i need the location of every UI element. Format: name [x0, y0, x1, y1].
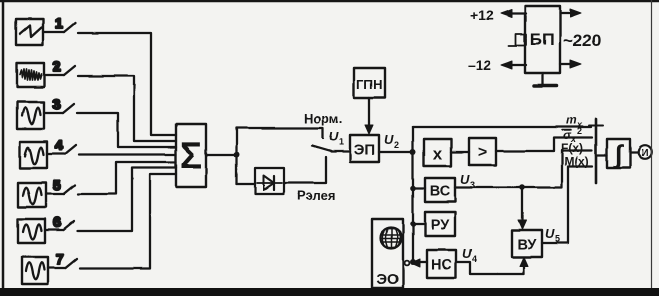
- svg-text:>: >: [478, 144, 487, 161]
- frame border left: [2, 0, 5, 291]
- arrow ~220 input top: [560, 9, 581, 17]
- wire bus to NS: [413, 261, 427, 263]
- wire bus to BC: [413, 187, 425, 189]
- arrow ~220 input bottom: [560, 60, 581, 68]
- wire mx line (top): [413, 126, 591, 128]
- source generator 1 (sawtooth): [16, 19, 43, 45]
- node BC output branch: [519, 185, 525, 191]
- node A (summer output junction): [234, 152, 240, 158]
- label sigma x squared: [562, 126, 582, 144]
- svg-text:~220: ~220: [563, 31, 601, 50]
- wire amplifier to sigma2 selector line: [496, 138, 592, 152]
- integrator block: [607, 139, 630, 169]
- wire rayleigh branch to selector contact: [284, 157, 326, 183]
- frame border right: [651, 0, 653, 291]
- block GPN (ГПН ramp generator): [354, 68, 385, 98]
- wire from S6 to summer input 6: [77, 168, 176, 232]
- svg-text:U: U: [329, 129, 339, 144]
- svg-text:2: 2: [53, 58, 61, 74]
- frame border top: [0, 0, 659, 2]
- svg-text:ЭП: ЭП: [354, 142, 375, 159]
- wire from S3 to summer input 3: [77, 113, 176, 147]
- svg-text:F(х): F(х): [561, 141, 583, 155]
- summer U1 (sigma block): [176, 124, 206, 187]
- svg-text:U: U: [462, 246, 472, 261]
- node RU input: [410, 221, 416, 227]
- label U5: [545, 226, 560, 244]
- wire selector to integrator: [596, 154, 607, 156]
- source generator 3 (sine): [17, 102, 44, 129]
- svg-text:7: 7: [56, 251, 64, 267]
- arrow -12 output: [501, 61, 526, 69]
- svg-text:–12: –12: [468, 57, 492, 73]
- svg-text:И: И: [641, 148, 648, 159]
- node U2 (bus junction): [410, 149, 416, 155]
- svg-text:U: U: [545, 226, 555, 241]
- wire X to amplifier: [451, 151, 469, 153]
- svg-text:ВУ: ВУ: [518, 237, 538, 253]
- svg-text:х: х: [433, 145, 443, 164]
- label U2: [384, 132, 399, 150]
- frame border bottom bar: [0, 288, 659, 296]
- svg-text:ВС: ВС: [430, 184, 451, 200]
- rayleigh detector VD1 (diode box): [255, 168, 284, 194]
- switch S7: [48, 259, 77, 268]
- block BC (ВС): [425, 178, 455, 202]
- wire summer output: [206, 154, 236, 156]
- wire from S5 to summer input 5: [78, 162, 176, 194]
- source generator 5 (sine): [18, 183, 46, 207]
- svg-text:2: 2: [577, 126, 582, 136]
- switch S5: [46, 185, 75, 194]
- svg-text:m: m: [566, 113, 577, 127]
- wire integrator to meter: [630, 151, 638, 153]
- node NS input: [410, 259, 416, 265]
- terminal circle at EO: [405, 261, 410, 266]
- arrow BC branch down to VU: [518, 188, 526, 230]
- wire from S2 to summer input 2: [78, 76, 176, 141]
- svg-text:ГПН: ГПН: [356, 77, 382, 92]
- label mx: [566, 113, 583, 130]
- block VU (ВУ): [512, 230, 542, 257]
- wire from S7 to summer input 7: [80, 174, 176, 269]
- wire from S1 to summer input 1: [78, 33, 176, 135]
- chassis terminal symbol: [509, 34, 526, 46]
- block NS (НС): [427, 250, 456, 278]
- svg-text:Норм.: Норм.: [304, 111, 342, 126]
- svg-text:2: 2: [394, 140, 399, 150]
- svg-text:4: 4: [472, 254, 477, 264]
- svg-text:Рэлея: Рэлея: [297, 188, 335, 203]
- switch S3: [44, 104, 74, 113]
- block X (multiplier): [424, 139, 451, 166]
- svg-text:1: 1: [55, 15, 63, 31]
- svg-text:М(х): М(х): [564, 155, 589, 169]
- svg-text:+12: +12: [470, 7, 494, 23]
- block EO (ЭО oscilloscope): [372, 219, 403, 288]
- source generator 6 (sine): [18, 219, 45, 243]
- svg-text:3: 3: [53, 96, 61, 112]
- svg-text:НС: НС: [431, 258, 452, 274]
- wire split vertical: [235, 128, 237, 184]
- switch S1: [43, 23, 75, 32]
- svg-text:Σ: Σ: [180, 135, 202, 176]
- arrow +12 output: [501, 10, 526, 18]
- block EP (ЭП): [350, 135, 379, 162]
- wire VU output to M(x) line: [542, 167, 592, 244]
- node BC input: [410, 185, 416, 191]
- block amplifier (>): [469, 138, 496, 165]
- wire from S4 to summer input 4: [79, 153, 176, 155]
- arrow bus to EO terminal: [411, 259, 420, 267]
- svg-text:БП: БП: [530, 30, 554, 49]
- wire arm to EP: [331, 150, 350, 152]
- wire NS output to VU bottom: [456, 262, 524, 274]
- selector switch arm U1: [312, 146, 331, 152]
- label U4: [462, 246, 477, 264]
- selector bar (mode switch): [589, 119, 603, 183]
- svg-text:4: 4: [55, 137, 63, 153]
- source generator 4 (sine): [20, 142, 47, 168]
- wire BC output to F(x) line: [455, 151, 592, 188]
- arrow into VU bottom: [520, 257, 528, 274]
- svg-text:6: 6: [53, 214, 61, 230]
- svg-text:U: U: [384, 132, 394, 147]
- arrow GPN to EP: [365, 98, 373, 134]
- power supply BP (БП): [525, 6, 560, 73]
- svg-text:ЭО: ЭО: [376, 271, 399, 288]
- source generator 7 (sine): [22, 257, 48, 284]
- switch S2: [44, 66, 75, 75]
- bus wire vertical: [412, 127, 414, 263]
- svg-text:U: U: [460, 172, 470, 187]
- switch S6: [45, 221, 74, 230]
- meter I (И): [638, 145, 652, 159]
- source generator 2 (noise): [17, 63, 44, 87]
- label U1: [329, 129, 344, 147]
- wire bus to RU: [413, 223, 425, 225]
- block RU (РУ): [425, 212, 455, 236]
- svg-text:5: 5: [53, 177, 61, 193]
- ground symbol: [534, 73, 557, 86]
- wire norm branch: [237, 128, 324, 138]
- svg-text:1: 1: [339, 137, 344, 147]
- svg-text:РУ: РУ: [431, 218, 450, 234]
- label U3: [460, 172, 475, 190]
- wire to rayleigh box: [237, 183, 256, 185]
- switch S4: [47, 145, 76, 154]
- wire EP output: [379, 151, 413, 153]
